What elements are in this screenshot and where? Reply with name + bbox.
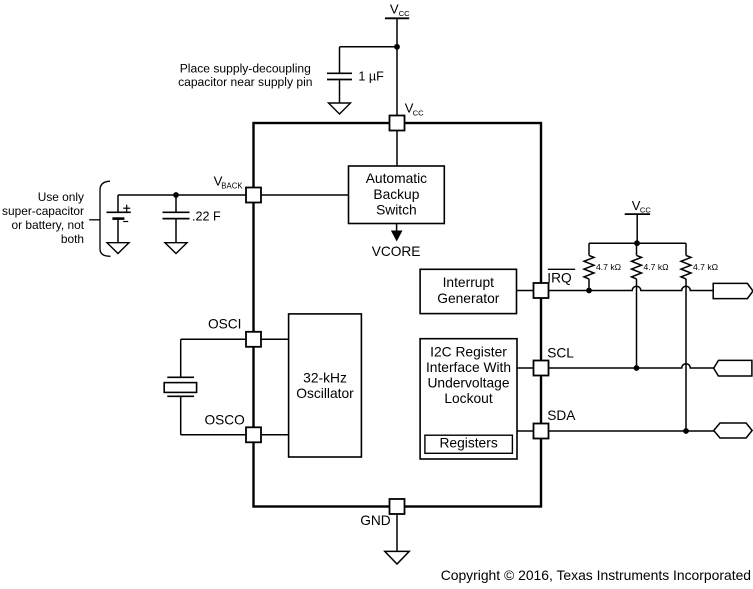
- svg-text:OSCI: OSCI: [208, 316, 241, 331]
- svg-text:Backup: Backup: [373, 187, 419, 202]
- svg-text:Interface With: Interface With: [426, 360, 511, 375]
- svg-text:capacitor near supply pin: capacitor near supply pin: [178, 75, 312, 89]
- svg-text:Place supply-decoupling: Place supply-decoupling: [180, 62, 311, 76]
- svg-text:SCL: SCL: [547, 346, 574, 361]
- svg-text:Lockout: Lockout: [444, 391, 492, 406]
- svg-text:Interrupt: Interrupt: [443, 275, 495, 290]
- svg-text:GND: GND: [360, 513, 391, 528]
- svg-text:CC: CC: [413, 109, 424, 118]
- svg-text:CC: CC: [640, 206, 651, 215]
- svg-text:SDA: SDA: [547, 408, 576, 423]
- svg-text:V: V: [390, 2, 399, 17]
- svg-text:Undervoltage: Undervoltage: [427, 375, 509, 390]
- svg-text:OSCO: OSCO: [205, 412, 245, 427]
- svg-text:Oscillator: Oscillator: [296, 386, 354, 401]
- svg-text:32-kHz: 32-kHz: [303, 371, 347, 386]
- svg-text:1 µF: 1 µF: [358, 70, 384, 84]
- svg-text:Use only: Use only: [38, 190, 84, 204]
- svg-text:both: both: [61, 232, 84, 246]
- svg-text:IRQ: IRQ: [547, 271, 571, 286]
- svg-text:Registers: Registers: [439, 435, 497, 450]
- svg-text:4.7 kΩ: 4.7 kΩ: [596, 262, 622, 272]
- svg-text:.22 F: .22 F: [192, 210, 221, 224]
- svg-text:Generator: Generator: [437, 291, 500, 306]
- svg-text:BACK: BACK: [221, 182, 243, 191]
- svg-text:4.7 kΩ: 4.7 kΩ: [644, 262, 670, 272]
- svg-text:CC: CC: [399, 9, 410, 18]
- svg-text:or battery, not: or battery, not: [12, 218, 85, 232]
- svg-text:VCORE: VCORE: [372, 244, 421, 259]
- svg-text:super-capacitor: super-capacitor: [2, 204, 84, 218]
- svg-text:I2C Register: I2C Register: [430, 345, 507, 360]
- svg-text:Switch: Switch: [376, 202, 417, 217]
- svg-text:Copyright © 2016, Texas Instru: Copyright © 2016, Texas Instruments Inco…: [441, 567, 751, 583]
- svg-text:Automatic: Automatic: [366, 171, 427, 186]
- svg-text:4.7 kΩ: 4.7 kΩ: [693, 262, 719, 272]
